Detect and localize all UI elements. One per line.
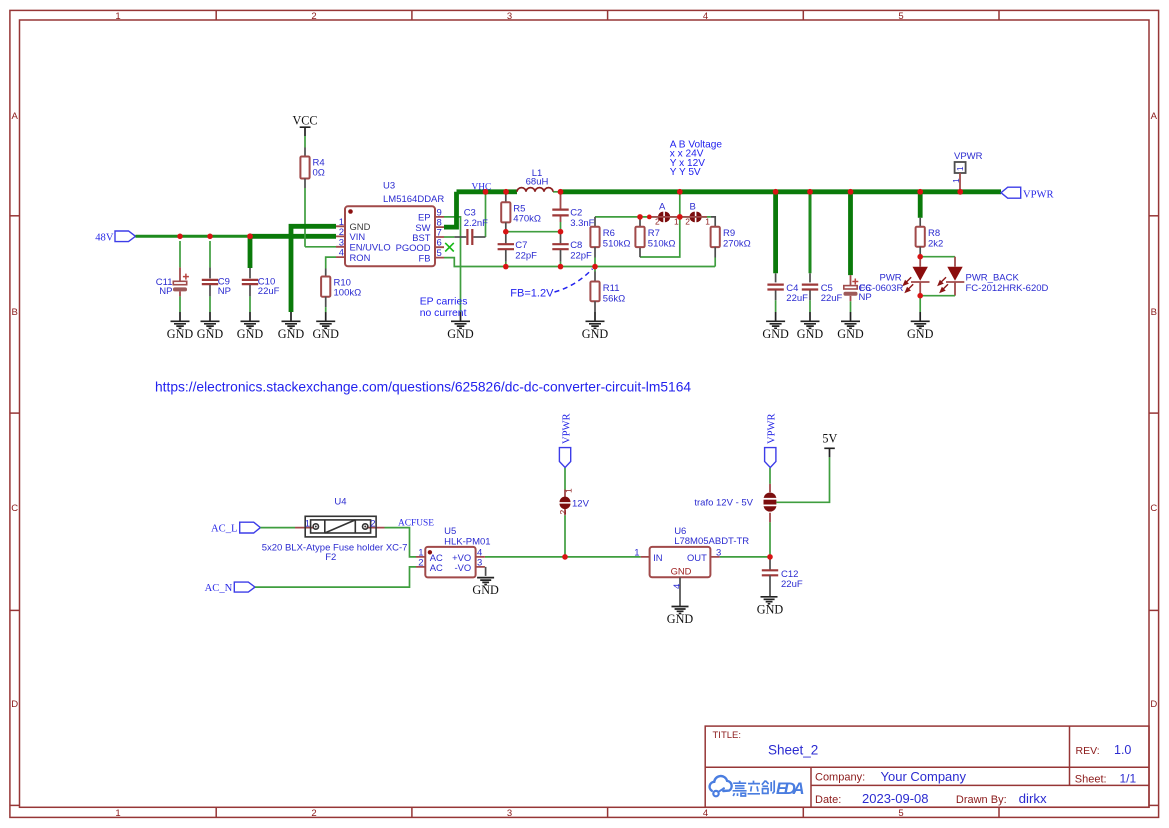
- svg-text:GND: GND: [167, 327, 194, 341]
- svg-text:5: 5: [898, 11, 903, 22]
- svg-text:VPWR: VPWR: [767, 412, 778, 444]
- svg-text:GND: GND: [907, 327, 934, 341]
- svg-text:Date:: Date:: [815, 794, 841, 806]
- svg-text:VCC: VCC: [292, 114, 317, 128]
- svg-text:EP carries: EP carries: [420, 296, 468, 307]
- svg-text:B: B: [12, 307, 18, 318]
- svg-text:GND: GND: [447, 327, 474, 341]
- svg-text:22uF: 22uF: [786, 293, 808, 304]
- svg-text:B: B: [1151, 307, 1157, 318]
- svg-text:AC: AC: [430, 562, 443, 573]
- svg-text:NP: NP: [159, 286, 172, 297]
- svg-text:A: A: [1151, 111, 1158, 122]
- svg-text:510kΩ: 510kΩ: [648, 238, 676, 249]
- svg-text:4: 4: [339, 248, 344, 259]
- svg-text:GND: GND: [237, 327, 264, 341]
- svg-text:Company:: Company:: [815, 772, 865, 784]
- svg-text:GND: GND: [472, 583, 499, 597]
- svg-text:D: D: [1150, 699, 1157, 710]
- svg-text:2: 2: [370, 519, 375, 530]
- svg-text:GND: GND: [797, 327, 824, 341]
- svg-text:2: 2: [339, 227, 344, 238]
- svg-text:3: 3: [477, 557, 482, 568]
- svg-text:VPWR: VPWR: [954, 151, 983, 162]
- svg-text:FC-2012HRK-620D: FC-2012HRK-620D: [966, 283, 1049, 294]
- svg-text:100kΩ: 100kΩ: [334, 288, 362, 299]
- svg-text:1: 1: [705, 216, 710, 226]
- svg-text:5: 5: [898, 808, 903, 819]
- svg-text:2: 2: [685, 216, 690, 226]
- svg-text:68uH: 68uH: [526, 177, 549, 188]
- svg-text:Sheet_2: Sheet_2: [768, 743, 818, 758]
- svg-text:AC_L: AC_L: [211, 523, 237, 534]
- svg-text:C: C: [1150, 503, 1157, 514]
- svg-text:U3: U3: [383, 181, 395, 192]
- svg-text:GND: GND: [837, 327, 864, 341]
- svg-text:1/1: 1/1: [1120, 772, 1137, 786]
- svg-text:GND: GND: [197, 327, 224, 341]
- svg-text:PGOOD: PGOOD: [396, 242, 431, 253]
- svg-text:B: B: [690, 201, 696, 212]
- svg-text:22uF: 22uF: [781, 579, 803, 590]
- svg-text:22uF: 22uF: [821, 293, 843, 304]
- svg-text:HLK-PM01: HLK-PM01: [444, 536, 490, 547]
- svg-text:GND: GND: [667, 612, 694, 626]
- svg-text:1: 1: [115, 11, 120, 22]
- svg-text:2: 2: [311, 808, 316, 819]
- svg-text:510kΩ: 510kΩ: [603, 238, 631, 249]
- svg-text:L78M05ABDT-TR: L78M05ABDT-TR: [674, 536, 749, 547]
- svg-text:GND: GND: [757, 602, 784, 616]
- svg-text:6: 6: [437, 238, 442, 249]
- svg-text:IN: IN: [653, 552, 662, 563]
- svg-text:NP: NP: [218, 286, 231, 297]
- svg-text:RON: RON: [350, 252, 371, 263]
- svg-text:1.0: 1.0: [1114, 743, 1131, 757]
- svg-text:2: 2: [558, 510, 568, 515]
- svg-text:3: 3: [507, 11, 512, 22]
- svg-text:REV:: REV:: [1076, 745, 1100, 757]
- svg-text:2.2nF: 2.2nF: [464, 218, 488, 229]
- svg-text:1: 1: [951, 178, 961, 183]
- svg-text:5: 5: [437, 248, 442, 259]
- svg-text:2: 2: [418, 557, 423, 568]
- svg-text:TITLE:: TITLE:: [713, 730, 742, 741]
- svg-text:4: 4: [703, 808, 708, 819]
- svg-text:NP: NP: [859, 292, 872, 303]
- svg-text:470kΩ: 470kΩ: [513, 214, 541, 225]
- svg-text:GND: GND: [278, 327, 305, 341]
- svg-text:GND: GND: [762, 327, 789, 341]
- svg-text:VHC: VHC: [472, 183, 492, 193]
- svg-text:12V: 12V: [572, 499, 590, 510]
- svg-text:5V: 5V: [822, 432, 837, 446]
- svg-text:4: 4: [703, 11, 708, 22]
- svg-text:dirkx: dirkx: [1019, 791, 1047, 806]
- svg-text:LM5164DDAR: LM5164DDAR: [383, 194, 444, 205]
- svg-text:4: 4: [672, 584, 683, 589]
- svg-text:1: 1: [115, 808, 120, 819]
- svg-text:A: A: [12, 111, 19, 122]
- svg-text:GND: GND: [582, 327, 609, 341]
- svg-text:22pF: 22pF: [570, 250, 592, 261]
- svg-text:Sheet:: Sheet:: [1075, 774, 1107, 786]
- svg-text:Your Company: Your Company: [881, 769, 967, 784]
- svg-text:AC_N: AC_N: [205, 583, 233, 594]
- svg-text:OUT: OUT: [687, 552, 707, 563]
- svg-text:U4: U4: [334, 497, 346, 508]
- svg-text:trafo 12V - 5V: trafo 12V - 5V: [694, 498, 753, 509]
- svg-text:GND: GND: [671, 565, 692, 576]
- svg-text:VPWR: VPWR: [1023, 189, 1055, 200]
- svg-text:48V: 48V: [95, 233, 114, 244]
- svg-text:GND: GND: [312, 327, 339, 341]
- svg-text:https://electronics.stackexcha: https://electronics.stackexchange.com/qu…: [155, 380, 691, 395]
- svg-text:1: 1: [955, 166, 965, 171]
- svg-text:no current: no current: [420, 308, 467, 319]
- svg-text:D: D: [11, 699, 18, 710]
- svg-text:2: 2: [311, 11, 316, 22]
- svg-text:2: 2: [655, 216, 660, 226]
- svg-text:FC-0603R: FC-0603R: [860, 283, 904, 294]
- svg-text:2023-09-08: 2023-09-08: [862, 791, 929, 806]
- svg-text:-VO: -VO: [455, 562, 472, 573]
- svg-text:VPWR: VPWR: [562, 412, 573, 444]
- svg-text:F2: F2: [325, 552, 336, 563]
- svg-text:FB=1.2V: FB=1.2V: [510, 287, 554, 299]
- svg-text:Y Y 5V: Y Y 5V: [670, 167, 701, 178]
- svg-text:1: 1: [634, 547, 639, 558]
- svg-text:EDA: EDA: [776, 780, 805, 798]
- svg-text:56kΩ: 56kΩ: [603, 293, 625, 304]
- svg-text:2k2: 2k2: [928, 238, 943, 249]
- svg-text:1: 1: [305, 519, 310, 530]
- svg-text:A: A: [659, 201, 666, 212]
- svg-text:0Ω: 0Ω: [313, 168, 325, 179]
- svg-text:270kΩ: 270kΩ: [723, 238, 751, 249]
- svg-text:VIN: VIN: [350, 231, 366, 242]
- svg-text:Drawn By:: Drawn By:: [956, 794, 1007, 806]
- svg-text:22pF: 22pF: [515, 250, 537, 261]
- svg-text:22uF: 22uF: [258, 286, 280, 297]
- svg-text:3: 3: [507, 808, 512, 819]
- svg-text:FB: FB: [419, 252, 431, 263]
- svg-text:C: C: [11, 503, 18, 514]
